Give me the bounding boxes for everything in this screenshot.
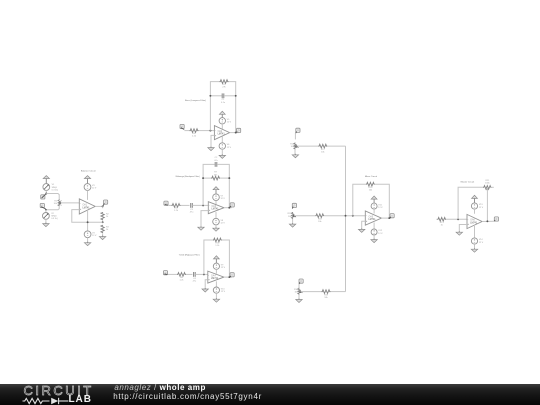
wire R7 to output branch bbox=[220, 177, 229, 179]
author / title bbox=[114, 384, 206, 392]
svg-text:47u: 47u bbox=[214, 160, 218, 162]
ground at U2 non-inverting input bbox=[208, 147, 214, 151]
svg-text:OA4: OA4 bbox=[211, 274, 216, 277]
junction bass input node bbox=[209, 130, 211, 132]
label R21 value bbox=[485, 180, 490, 185]
wire U4 output to terminal bbox=[224, 276, 232, 278]
wire node B to V2 top bbox=[45, 210, 47, 213]
voltage source V11 (U5 positive supply) bbox=[371, 203, 377, 209]
svg-text:12 V: 12 V bbox=[378, 233, 383, 235]
resistor R17 (bass mix) bbox=[318, 144, 327, 148]
terminal MIX_OUT bbox=[390, 214, 395, 218]
capacitor C3 (midrange input) bbox=[191, 203, 193, 208]
svg-text:10k: 10k bbox=[369, 189, 373, 191]
wire R6 to C3 bbox=[181, 204, 190, 206]
junction node A bbox=[45, 193, 47, 195]
svg-text:1.2k: 1.2k bbox=[215, 245, 220, 247]
label R5 value bbox=[222, 84, 226, 89]
resistor R20 (mixer feedback) bbox=[366, 182, 375, 186]
label V5 value bbox=[227, 119, 232, 124]
wire V8 to ground bbox=[215, 225, 217, 228]
junction treble input node bbox=[203, 273, 205, 275]
ground below V14 bbox=[471, 248, 477, 252]
svg-text:C2: C2 bbox=[215, 157, 219, 159]
wire summing bus vertical bbox=[345, 146, 347, 292]
voltage source V1 (left input A) bbox=[43, 184, 50, 191]
wire U5 bottom supply to V12 bbox=[373, 223, 375, 230]
wire V10 to ground bbox=[215, 293, 217, 299]
label R4 value bbox=[192, 133, 197, 138]
svg-text:12 V: 12 V bbox=[227, 147, 232, 149]
junction pot wiper bbox=[59, 202, 61, 204]
ground below V4 bbox=[84, 242, 90, 246]
label R14 value bbox=[290, 144, 295, 149]
label V7 value bbox=[221, 195, 226, 200]
wire MIX_IN_MID down to R15 bbox=[292, 208, 294, 210]
junction C1 right bbox=[235, 95, 237, 97]
svg-text:1k: 1k bbox=[106, 216, 109, 218]
voltage source V8 (U3 negative supply) bbox=[213, 218, 220, 225]
voltage source V13 (U6 positive supply) bbox=[471, 203, 477, 209]
voltage source V4 (U1 negative supply) bbox=[84, 231, 91, 238]
circuit URL bbox=[113, 393, 262, 401]
supply arrow above V1 bbox=[43, 176, 49, 184]
potentiometer R15 (midrange level) bbox=[292, 212, 294, 219]
wire R4 to U2 inverting input bbox=[199, 130, 215, 132]
wire midrange node to R7 bbox=[203, 177, 211, 179]
voltage source V6 (U2 negative supply) bbox=[219, 143, 225, 149]
label R8 value bbox=[180, 277, 185, 282]
wire treble node up to R10 bbox=[204, 240, 213, 274]
svg-text:12 V: 12 V bbox=[221, 198, 226, 200]
svg-text:12 V: 12 V bbox=[221, 267, 226, 269]
wire R5 to bass output bbox=[229, 82, 236, 133]
resistor R19 (treble mix) bbox=[322, 290, 331, 294]
label R13 value bbox=[440, 222, 445, 227]
wire R20 to mixer output bbox=[375, 184, 389, 218]
terminal BASS_IN bbox=[180, 124, 184, 129]
wire V9 to U4 top bbox=[215, 269, 217, 273]
label C1 value bbox=[221, 99, 226, 104]
wire midrange node up to C2 bbox=[203, 164, 215, 205]
supply arrow above V5 bbox=[219, 111, 225, 118]
label V3 value bbox=[92, 185, 97, 190]
wire master node up to R21 bbox=[458, 187, 483, 219]
label R3 value bbox=[106, 226, 110, 231]
wire V13 to U6 top bbox=[474, 209, 476, 214]
terminal IN_B bbox=[40, 203, 45, 208]
wire feedback divider to U1 inverting input bbox=[72, 210, 103, 223]
junction master input node bbox=[457, 218, 459, 220]
voltage source V9 (U4 positive supply) bbox=[213, 263, 219, 269]
svg-text:2.2k: 2.2k bbox=[192, 135, 197, 137]
svg-text:-: - bbox=[215, 129, 216, 132]
label V6 value bbox=[227, 144, 232, 149]
wire U1 output bbox=[95, 205, 102, 207]
ground at U3 non-inverting input bbox=[198, 226, 204, 230]
wire V12 to ground bbox=[373, 235, 375, 239]
wire node B to pot R1 bottom bbox=[46, 206, 59, 210]
svg-text:LM741: LM741 bbox=[470, 222, 478, 224]
resistor R6 (midrange input) bbox=[172, 204, 181, 208]
wire U3 output to terminal bbox=[224, 207, 232, 209]
wire V14 to ground bbox=[474, 244, 476, 249]
supply arrow above V7 bbox=[213, 187, 219, 194]
ground below R16 bbox=[296, 299, 302, 303]
label R7 value bbox=[214, 172, 218, 177]
svg-text:Balance Circuit: Balance Circuit bbox=[81, 170, 96, 173]
op-amp U3 bbox=[208, 202, 224, 214]
wire C2 to midrange output bbox=[217, 164, 229, 207]
wire R14 wiper to R17 bbox=[296, 145, 318, 147]
label V2 value bbox=[51, 213, 58, 220]
terminal MIX_IN_TREB bbox=[299, 279, 303, 284]
wire R3 to ground bbox=[102, 233, 104, 236]
label C3 value bbox=[190, 209, 194, 214]
wire V7 to U3 top bbox=[215, 201, 217, 205]
wire R21 right stub bbox=[492, 186, 494, 188]
supply arrow above V3 bbox=[84, 176, 90, 184]
wire bass node to C1 bbox=[210, 95, 222, 97]
wire U3 bottom supply to V8 bbox=[215, 212, 217, 218]
svg-text:1k: 1k bbox=[106, 229, 109, 231]
wire bass node up to R5 bbox=[210, 82, 219, 131]
label R20 value bbox=[368, 187, 373, 192]
svg-text:47u: 47u bbox=[193, 281, 197, 283]
wire U5 non-inverting input to ground bbox=[362, 221, 366, 229]
label V9 value bbox=[221, 264, 226, 269]
svg-text:-: - bbox=[366, 214, 367, 217]
svg-text:-: - bbox=[209, 204, 210, 207]
label R6 value bbox=[174, 208, 179, 213]
junction R16 wiper bbox=[299, 291, 301, 293]
CircuitLab logo resistor+diode mark bbox=[21, 396, 69, 405]
capacitor C4 (treble input) bbox=[194, 272, 196, 277]
terminal TREB_IN bbox=[163, 271, 167, 275]
footer bar bbox=[0, 384, 540, 405]
svg-text:10k: 10k bbox=[318, 221, 322, 223]
svg-text:27k: 27k bbox=[222, 87, 226, 89]
ground at U5 non-inverting input bbox=[359, 228, 365, 232]
ground below R3 bbox=[99, 236, 105, 240]
label R19 value bbox=[324, 294, 329, 299]
svg-text:R21: R21 bbox=[485, 180, 490, 182]
potentiometer R1 (balance pot) bbox=[58, 199, 60, 206]
resistor R18 (midrange mix) bbox=[315, 214, 324, 218]
svg-text:0.3 1k): 0.3 1k) bbox=[52, 189, 59, 191]
junction node B bbox=[45, 209, 47, 211]
svg-text:56k: 56k bbox=[214, 174, 218, 176]
wire U4 bottom supply to V10 bbox=[215, 281, 217, 287]
svg-text:LM741: LM741 bbox=[218, 134, 226, 136]
resistor R10 (treble feedback) bbox=[213, 238, 222, 242]
resistor R8 (treble input) bbox=[177, 273, 186, 277]
wire output node down to R2 bbox=[102, 206, 104, 208]
wire R14 bottom to ground bbox=[294, 150, 296, 155]
wire U3 non-inverting input to ground bbox=[201, 211, 208, 227]
svg-text:0.1u: 0.1u bbox=[221, 102, 226, 104]
wire U5 output to terminal bbox=[381, 217, 391, 219]
terminal MID_OUT bbox=[230, 203, 235, 208]
svg-text:12 V: 12 V bbox=[92, 188, 97, 190]
terminal IN_A bbox=[41, 194, 46, 199]
wire R18 to summing node bbox=[324, 215, 365, 217]
ground below V10 bbox=[213, 298, 219, 302]
wire U2 output to terminal bbox=[230, 132, 239, 134]
capacitor C2 (midrange feedback) bbox=[215, 162, 217, 167]
wire R13 to U6 inverting input bbox=[446, 218, 467, 220]
wire MID_IN to R6 bbox=[168, 204, 171, 206]
voltage source V12 (U5 negative supply) bbox=[371, 229, 377, 235]
svg-text:LM741: LM741 bbox=[211, 278, 219, 280]
junction R7 left bbox=[202, 177, 204, 179]
label V1 value bbox=[52, 184, 59, 191]
label R17 value bbox=[321, 149, 326, 154]
wire R17 to summing bus bbox=[327, 145, 345, 147]
junction C1 left bbox=[209, 95, 211, 97]
junction R15 wiper bbox=[293, 215, 295, 217]
junction mixer output node bbox=[388, 217, 390, 219]
CircuitLab logo text CIRCUIT bbox=[24, 384, 94, 397]
resistor R4 (bass input) bbox=[190, 129, 199, 133]
capacitor C1 (bass feedback) bbox=[222, 93, 224, 98]
wire U2 bottom supply to V6 bbox=[221, 136, 223, 143]
resistor R7 (midrange feedback) bbox=[211, 176, 220, 180]
svg-text:-: - bbox=[468, 218, 469, 221]
svg-text:47u: 47u bbox=[190, 212, 194, 214]
wire U1 bottom supply to V4 bbox=[87, 211, 89, 231]
wire R10 to treble output bbox=[222, 240, 230, 277]
junction R14 wiper bbox=[295, 145, 297, 147]
wire U6 bottom supply to V14 bbox=[474, 226, 476, 238]
svg-text:1.2k: 1.2k bbox=[180, 279, 185, 281]
wire node A to pot R1 top bbox=[46, 194, 59, 200]
wire R8 to C4 bbox=[186, 273, 192, 275]
potentiometer R21 (master volume) bbox=[483, 186, 492, 189]
wire R16 wiper to R19 bbox=[300, 291, 321, 293]
ground at U4 non-inverting input bbox=[202, 288, 208, 292]
voltage source V5 (U2 positive supply) bbox=[219, 118, 225, 124]
wire R21 wiper to master output bbox=[486, 188, 488, 221]
svg-text:Mixer Circuit: Mixer Circuit bbox=[365, 175, 378, 178]
svg-text:-: - bbox=[208, 274, 209, 277]
svg-text:Treble (Highpass Filter): Treble (Highpass Filter) bbox=[179, 253, 200, 256]
supply arrow above V11 bbox=[371, 196, 377, 203]
terminal MIX_IN_MID bbox=[292, 203, 296, 208]
svg-text:12 V: 12 V bbox=[479, 242, 484, 244]
junction R7 right bbox=[228, 177, 230, 179]
label V11 value bbox=[378, 204, 383, 209]
svg-text:LM741: LM741 bbox=[212, 209, 220, 211]
voltage source V7 (U3 positive supply) bbox=[213, 194, 220, 201]
svg-text:10k: 10k bbox=[321, 151, 325, 153]
junction U1 output node bbox=[102, 205, 104, 207]
wire TREB_IN to R8 bbox=[168, 273, 177, 275]
voltage source V2 (left input B) bbox=[43, 213, 50, 220]
terminal BASS_OUT bbox=[236, 128, 241, 132]
op-amp U5 bbox=[365, 211, 381, 225]
op-amp U6 bbox=[467, 214, 482, 228]
label R16 value bbox=[294, 289, 299, 294]
svg-text:Master Circuit: Master Circuit bbox=[461, 181, 475, 184]
voltage source V14 (U6 negative supply) bbox=[471, 238, 477, 244]
ground below R15 bbox=[289, 223, 295, 227]
svg-text:Bass (Lowpass Filter): Bass (Lowpass Filter) bbox=[185, 99, 206, 102]
svg-text:OA2: OA2 bbox=[218, 130, 223, 133]
svg-text:OA1: OA1 bbox=[83, 204, 88, 207]
svg-text:LM741: LM741 bbox=[369, 219, 377, 221]
svg-text:10k: 10k bbox=[324, 297, 328, 299]
junction master output node bbox=[486, 220, 488, 222]
junction treble output node bbox=[228, 276, 230, 278]
ground at U6 non-inverting input bbox=[456, 231, 462, 235]
terminal OUT_BAL bbox=[103, 200, 108, 206]
label V8 value bbox=[221, 220, 226, 225]
svg-text:-: - bbox=[80, 203, 81, 206]
wire U4 non-inverting input to ground bbox=[205, 280, 208, 289]
wire R15 bottom to ground bbox=[292, 219, 294, 224]
wire V2 bottom to ground bbox=[45, 219, 47, 223]
label V14 value bbox=[479, 239, 484, 244]
CircuitLab logo text LAB bbox=[69, 395, 92, 405]
label V13 value bbox=[479, 204, 484, 209]
svg-text:12 V: 12 V bbox=[92, 235, 97, 237]
wire V6 to ground bbox=[221, 149, 223, 155]
wire BASS_IN to R4 bbox=[184, 130, 189, 132]
wire C4 to U4 inverting input bbox=[195, 273, 208, 275]
label V10 value bbox=[221, 288, 226, 293]
svg-text:10k: 10k bbox=[54, 203, 58, 205]
ground below V8 bbox=[213, 227, 219, 231]
resistor R3 (divider bottom) bbox=[101, 225, 104, 233]
junction summing bus to U5 bbox=[345, 215, 347, 217]
wire V5 to U2 top bbox=[221, 124, 223, 129]
supply arrow above V9 bbox=[214, 256, 220, 263]
svg-text:100k: 100k bbox=[485, 183, 490, 185]
svg-text:12 V: 12 V bbox=[378, 207, 383, 209]
svg-text:1.2k: 1.2k bbox=[174, 210, 179, 212]
wire R16 bottom to ground bbox=[298, 295, 300, 300]
resistor R13 (master input) bbox=[437, 218, 446, 222]
svg-text:LM741: LM741 bbox=[83, 207, 91, 209]
wire C1 to output branch bbox=[224, 95, 236, 97]
label V4 value bbox=[92, 232, 97, 237]
op-amp U1 bbox=[79, 199, 95, 214]
wire U6 output to terminal bbox=[482, 220, 494, 222]
ground below V6 bbox=[219, 154, 225, 158]
label V12 value bbox=[378, 230, 383, 235]
label R18 value bbox=[318, 218, 323, 223]
junction mixer input node bbox=[352, 215, 354, 217]
terminal MIX_IN_BASS bbox=[296, 128, 300, 133]
svg-text:OA6: OA6 bbox=[470, 219, 475, 222]
wire master input stub bbox=[435, 218, 438, 220]
svg-text:OA5: OA5 bbox=[369, 215, 374, 218]
junction divider node bbox=[102, 221, 104, 223]
junction feedback crossing bbox=[87, 221, 89, 223]
wire V4 to ground bbox=[87, 238, 89, 243]
resistor R5 (bass feedback) bbox=[220, 80, 229, 84]
wire mixer node up to R20 bbox=[353, 184, 366, 216]
svg-text:12 V: 12 V bbox=[221, 222, 226, 224]
wire V1 bottom to node A bbox=[45, 190, 47, 193]
junction bass output node bbox=[235, 132, 237, 134]
potentiometer R14 (bass level) bbox=[294, 143, 296, 150]
label R2 value bbox=[106, 214, 110, 219]
wire pot wiper to op-amp U1 non-inverting input bbox=[60, 202, 79, 204]
resistor R2 (divider top) bbox=[101, 212, 104, 220]
svg-text:Midrange (Bandpass Filter): Midrange (Bandpass Filter) bbox=[176, 175, 200, 178]
potentiometer R16 (treble level) bbox=[298, 288, 300, 295]
op-amp U4 bbox=[208, 271, 224, 283]
label R10 value bbox=[215, 242, 220, 247]
wire C3 to U3 inverting input bbox=[192, 204, 208, 206]
label R15 value bbox=[288, 213, 293, 218]
junction midrange input node bbox=[202, 204, 204, 206]
voltage source V10 (U4 negative supply) bbox=[213, 287, 219, 293]
svg-text:1k: 1k bbox=[441, 224, 444, 226]
terminal MASTER_OUT bbox=[494, 217, 498, 221]
svg-text:OA3: OA3 bbox=[212, 205, 217, 208]
junction midrange output node bbox=[228, 207, 230, 209]
label C2 value bbox=[214, 157, 218, 162]
terminal MID_IN bbox=[164, 201, 168, 205]
op-amp U2 bbox=[214, 126, 229, 140]
ground below R14 bbox=[292, 154, 298, 158]
svg-text:12 V: 12 V bbox=[479, 207, 484, 209]
wire MIX_IN_BASS down to R14 bbox=[294, 133, 296, 139]
svg-text:R7: R7 bbox=[214, 172, 218, 174]
wire R2 to divider node bbox=[102, 220, 104, 222]
svg-text:12 V: 12 V bbox=[221, 291, 226, 293]
wire V3 to op-amp U1 top bbox=[87, 190, 89, 200]
wire R19 to summing bus bbox=[331, 291, 346, 293]
terminal TREB_OUT bbox=[230, 273, 235, 277]
svg-text:12 V: 12 V bbox=[227, 122, 232, 124]
label R1 value bbox=[54, 201, 58, 206]
wire R15 wiper to R18 bbox=[294, 215, 316, 217]
wire U6 non-inverting input to ground bbox=[459, 225, 467, 233]
wire V11 to U5 top bbox=[373, 209, 375, 213]
wire U2 non-inverting input to ground bbox=[211, 135, 214, 147]
label C4 value bbox=[193, 278, 197, 283]
ground below V2 bbox=[43, 223, 49, 227]
voltage source V3 (U1 positive supply) bbox=[84, 184, 91, 191]
svg-text:0.3 1k): 0.3 1k) bbox=[51, 218, 58, 220]
wire MIX_IN_TREB down to R16 bbox=[298, 284, 300, 288]
ground below V12 bbox=[371, 239, 377, 243]
supply arrow above V13 bbox=[472, 195, 478, 203]
